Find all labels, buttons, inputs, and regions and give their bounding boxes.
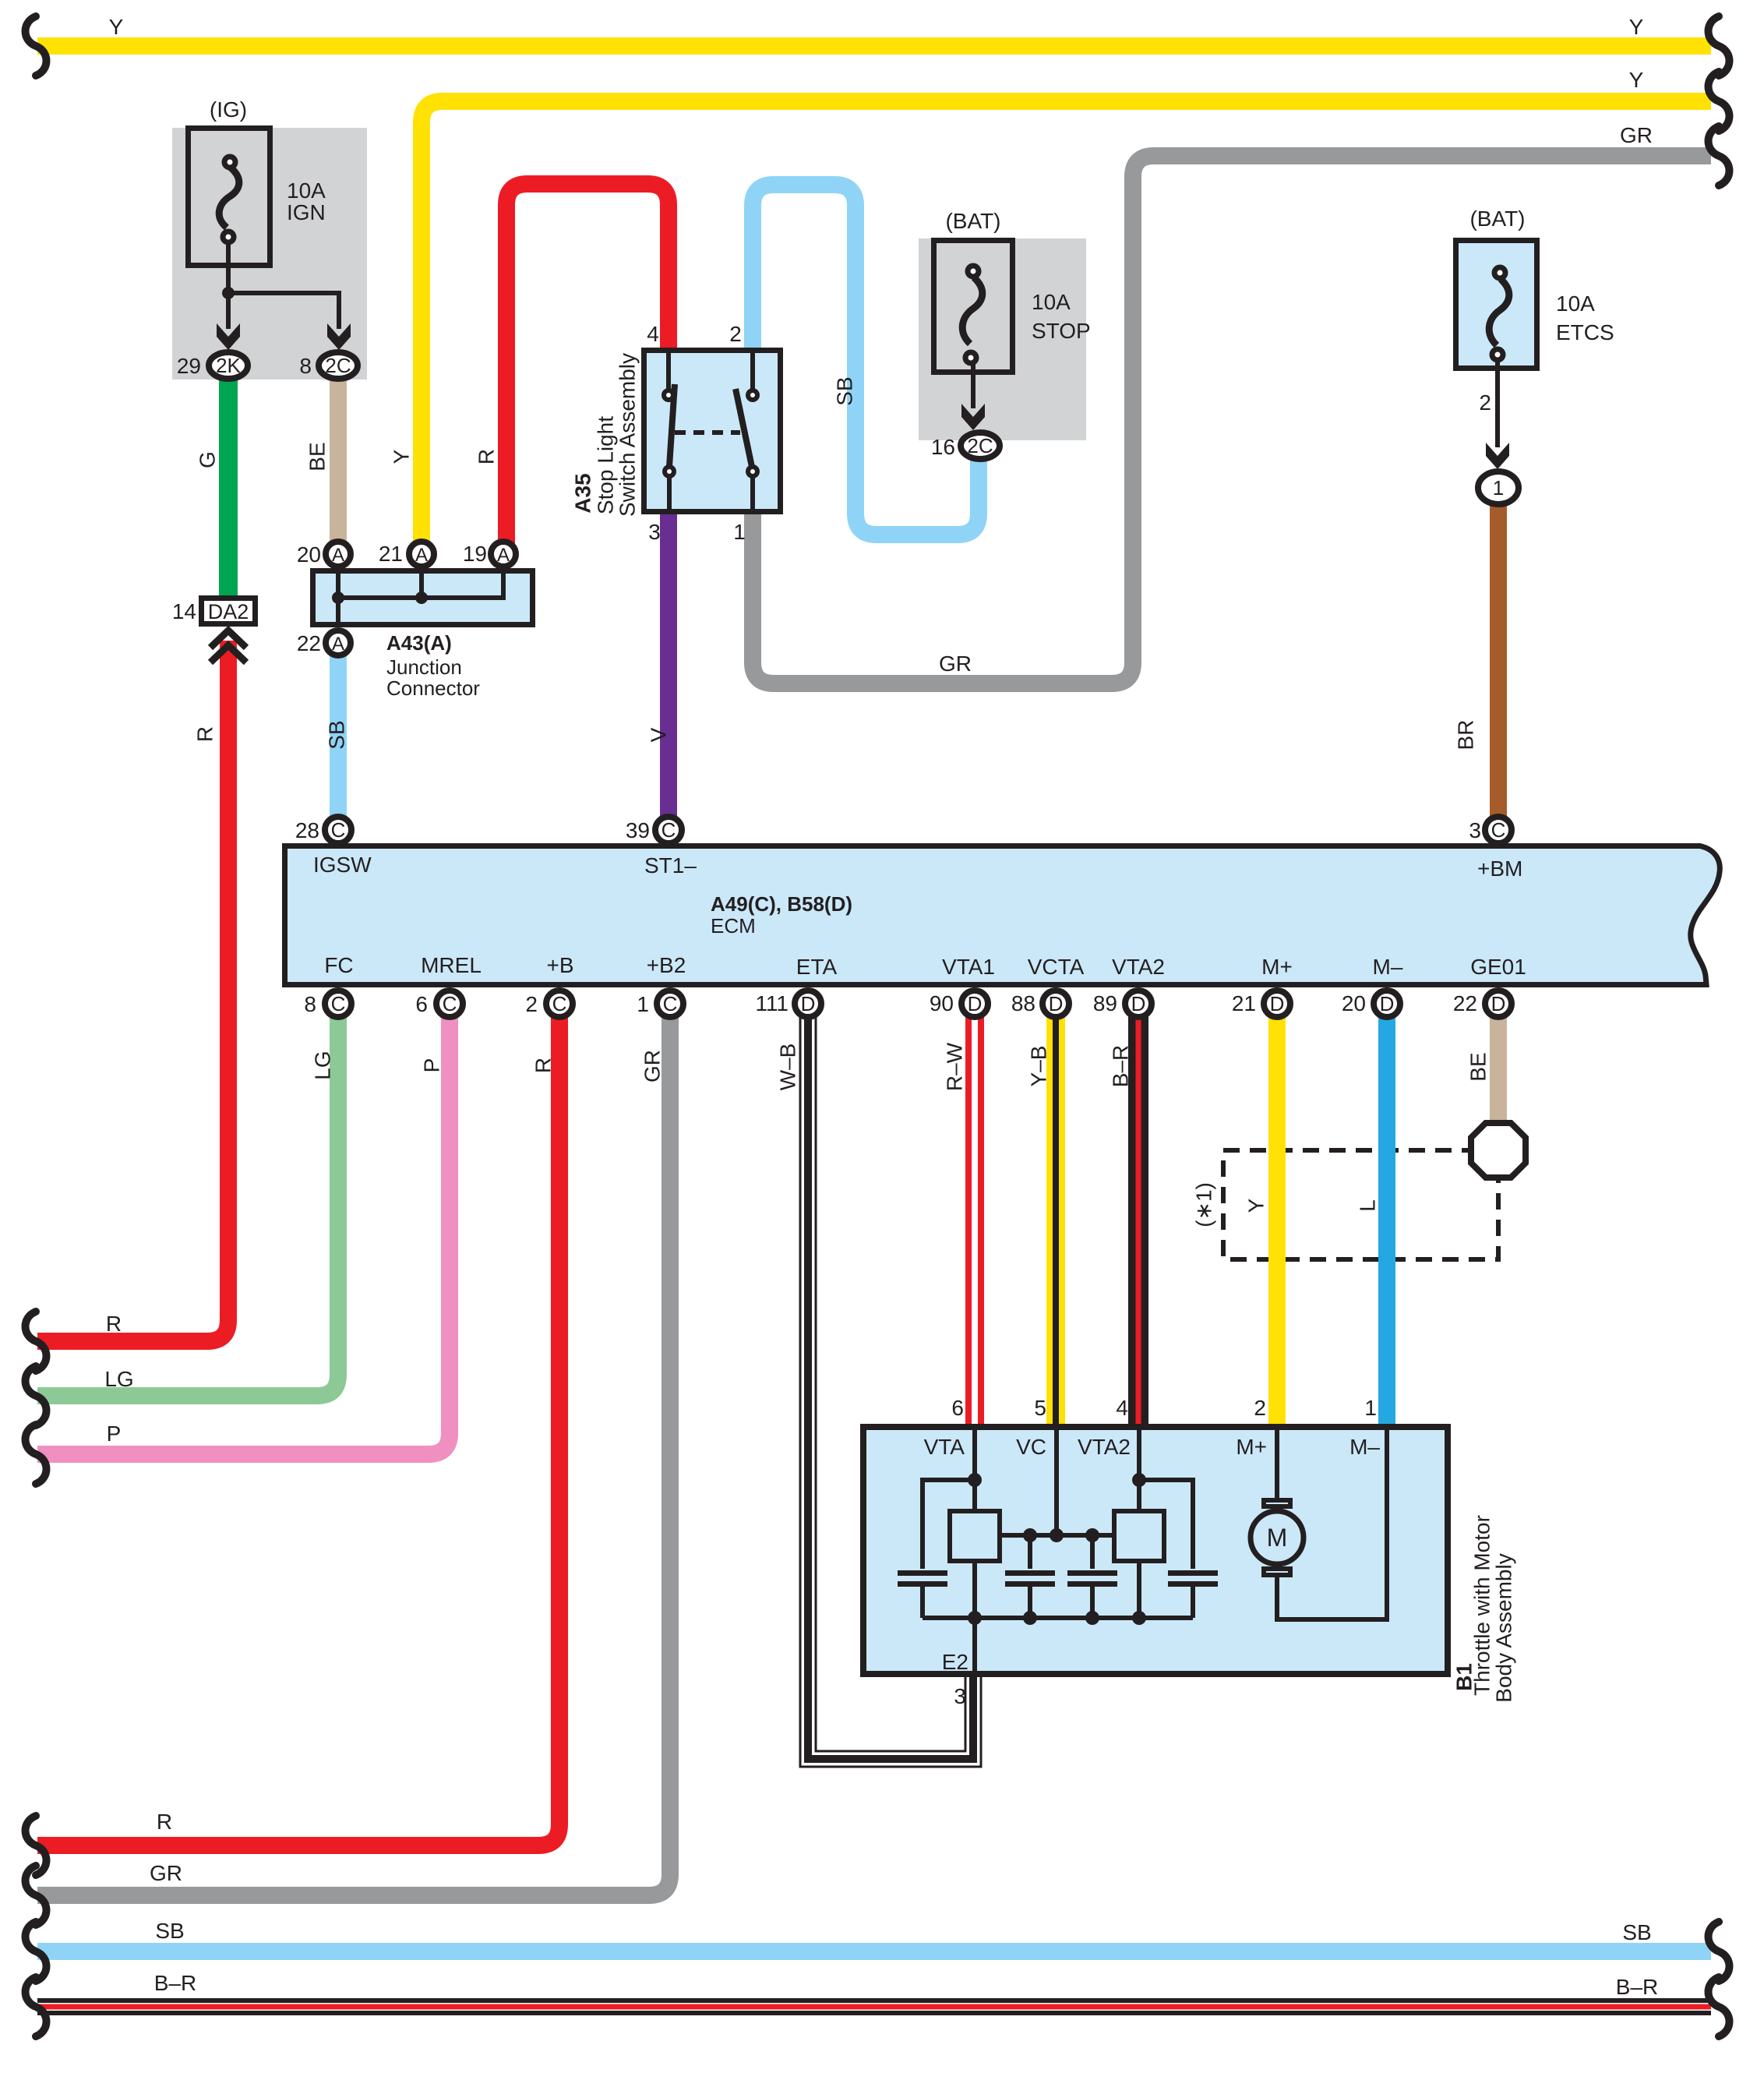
svg-text:Y: Y: [1629, 68, 1644, 92]
svg-text:+B2: +B2: [647, 953, 686, 977]
svg-text:3: 3: [1469, 818, 1481, 842]
svg-text:C: C: [331, 818, 346, 842]
svg-text:B–R: B–R: [154, 1971, 196, 1995]
svg-text:BR: BR: [1454, 720, 1478, 750]
svg-text:A: A: [497, 545, 510, 566]
svg-text:SB: SB: [833, 376, 857, 405]
svg-text:SB: SB: [325, 720, 349, 749]
svg-text:6: 6: [951, 1396, 964, 1420]
svg-text:8: 8: [299, 354, 312, 378]
svg-text:1: 1: [1364, 1396, 1377, 1420]
svg-text:SB: SB: [155, 1919, 184, 1943]
svg-text:GR: GR: [1620, 123, 1653, 147]
svg-text:Y: Y: [390, 449, 414, 464]
svg-text:ECM: ECM: [711, 914, 756, 938]
svg-text:22: 22: [1453, 991, 1477, 1015]
svg-text:VCTA: VCTA: [1028, 955, 1085, 979]
svg-text:A: A: [332, 545, 344, 566]
svg-text:LG: LG: [104, 1367, 133, 1391]
svg-text:A35: A35: [571, 473, 595, 513]
svg-text:STOP: STOP: [1032, 319, 1091, 343]
svg-text:V: V: [647, 727, 671, 742]
svg-text:BE: BE: [1466, 1052, 1491, 1081]
svg-text:M–: M–: [1373, 955, 1403, 979]
svg-text:P: P: [107, 1421, 122, 1446]
svg-text:Junction: Junction: [386, 655, 462, 679]
svg-text:M+: M+: [1236, 1435, 1267, 1459]
svg-text:D: D: [1380, 992, 1395, 1015]
svg-text:ST1–: ST1–: [644, 853, 697, 878]
svg-text:Switch Assembly: Switch Assembly: [616, 353, 640, 517]
svg-text:6: 6: [415, 992, 428, 1016]
svg-text:8: 8: [304, 992, 316, 1016]
svg-text:3: 3: [954, 1684, 966, 1708]
svg-text:1: 1: [1493, 476, 1504, 500]
svg-text:ETA: ETA: [796, 955, 838, 979]
svg-text:SB: SB: [1622, 1920, 1651, 1944]
svg-text:FC: FC: [324, 953, 353, 977]
svg-text:D: D: [1049, 992, 1064, 1015]
svg-text:10A: 10A: [287, 178, 326, 203]
svg-text:P: P: [420, 1058, 444, 1073]
svg-text:MREL: MREL: [421, 953, 482, 977]
svg-text:LG: LG: [311, 1051, 335, 1079]
svg-text:Y: Y: [109, 15, 124, 39]
svg-text:A: A: [415, 545, 428, 566]
svg-text:VTA1: VTA1: [942, 955, 995, 979]
svg-text:B–R: B–R: [1109, 1045, 1133, 1087]
svg-text:+BM: +BM: [1477, 856, 1522, 881]
svg-text:B–R: B–R: [1616, 1975, 1658, 1999]
svg-text:G: G: [196, 451, 220, 468]
svg-text:C: C: [443, 992, 457, 1015]
svg-text:D: D: [968, 992, 983, 1015]
svg-text:ETCS: ETCS: [1556, 320, 1614, 344]
svg-text:GR: GR: [150, 1861, 182, 1885]
svg-text:2: 2: [1254, 1396, 1266, 1420]
svg-text:1: 1: [637, 992, 649, 1016]
svg-text:88: 88: [1011, 991, 1035, 1015]
svg-text:10A: 10A: [1032, 290, 1071, 314]
svg-text:(BAT): (BAT): [945, 209, 1000, 233]
svg-text:VTA: VTA: [924, 1435, 965, 1459]
svg-text:C: C: [1491, 818, 1506, 842]
svg-text:C: C: [661, 818, 676, 842]
svg-text:14: 14: [172, 599, 196, 623]
svg-text:29: 29: [177, 354, 201, 378]
svg-text:(∗1): (∗1): [1192, 1182, 1216, 1227]
svg-text:A43(A): A43(A): [386, 631, 452, 655]
svg-text:5: 5: [1034, 1396, 1046, 1420]
svg-text:2C: 2C: [325, 354, 351, 377]
svg-text:D: D: [801, 992, 816, 1015]
svg-text:A49(C), B58(D): A49(C), B58(D): [711, 892, 852, 916]
svg-text:16: 16: [931, 435, 955, 459]
svg-text:2: 2: [1479, 390, 1491, 415]
svg-text:28: 28: [295, 818, 319, 842]
svg-text:Stop Light: Stop Light: [594, 416, 618, 514]
svg-text:E2: E2: [942, 1650, 968, 1674]
svg-text:C: C: [552, 992, 567, 1015]
svg-text:2: 2: [729, 322, 742, 346]
svg-text:Y: Y: [1629, 15, 1644, 39]
svg-text:GE01: GE01: [1470, 955, 1526, 979]
svg-text:R: R: [475, 449, 499, 464]
svg-text:C: C: [331, 992, 346, 1015]
svg-text:IGN: IGN: [287, 200, 326, 224]
svg-text:4: 4: [1116, 1396, 1128, 1420]
svg-text:22: 22: [297, 631, 321, 655]
svg-text:R: R: [157, 1810, 172, 1834]
svg-text:2: 2: [525, 992, 538, 1016]
svg-text:1: 1: [733, 520, 746, 544]
svg-text:L: L: [1356, 1199, 1380, 1212]
svg-text:M: M: [1267, 1524, 1288, 1552]
svg-text:D: D: [1131, 992, 1146, 1015]
svg-text:D: D: [1491, 992, 1506, 1015]
svg-text:111: 111: [755, 991, 789, 1015]
svg-text:10A: 10A: [1556, 291, 1595, 316]
svg-text:Y: Y: [1244, 1198, 1268, 1213]
svg-text:4: 4: [647, 322, 659, 346]
svg-text:W–B: W–B: [776, 1044, 800, 1091]
svg-text:M+: M+: [1261, 955, 1293, 979]
svg-text:M–: M–: [1349, 1435, 1380, 1459]
svg-text:VTA2: VTA2: [1078, 1435, 1131, 1459]
svg-text:IGSW: IGSW: [313, 853, 372, 877]
svg-text:GR: GR: [939, 652, 972, 676]
svg-text:R: R: [531, 1058, 556, 1073]
svg-text:89: 89: [1093, 991, 1117, 1015]
svg-text:C: C: [663, 992, 678, 1015]
svg-text:3: 3: [648, 520, 661, 544]
svg-text:DA2: DA2: [208, 600, 249, 623]
svg-text:90: 90: [930, 991, 954, 1015]
svg-text:R: R: [106, 1312, 122, 1336]
svg-text:VTA2: VTA2: [1112, 955, 1165, 979]
svg-text:(IG): (IG): [210, 97, 247, 122]
svg-text:2K: 2K: [216, 354, 241, 377]
svg-text:R: R: [193, 726, 217, 742]
svg-text:(BAT): (BAT): [1469, 207, 1525, 231]
svg-text:39: 39: [626, 818, 650, 842]
svg-text:Connector: Connector: [386, 676, 480, 700]
svg-text:2C: 2C: [967, 434, 993, 457]
svg-text:VC: VC: [1016, 1435, 1046, 1459]
svg-text:R–W: R–W: [943, 1042, 967, 1091]
svg-text:D: D: [1270, 992, 1285, 1015]
svg-text:19: 19: [463, 542, 487, 566]
svg-text:20: 20: [1342, 991, 1366, 1015]
svg-text:GR: GR: [640, 1050, 665, 1082]
svg-text:20: 20: [297, 542, 321, 567]
svg-text:BE: BE: [305, 442, 330, 471]
svg-text:+B: +B: [546, 953, 573, 977]
svg-text:A: A: [332, 634, 344, 655]
svg-text:21: 21: [379, 542, 403, 566]
svg-text:Body Assembly: Body Assembly: [1492, 1553, 1516, 1702]
svg-text:Y–B: Y–B: [1027, 1046, 1051, 1087]
svg-text:Throttle with Motor: Throttle with Motor: [1470, 1515, 1494, 1696]
svg-text:21: 21: [1232, 991, 1256, 1015]
